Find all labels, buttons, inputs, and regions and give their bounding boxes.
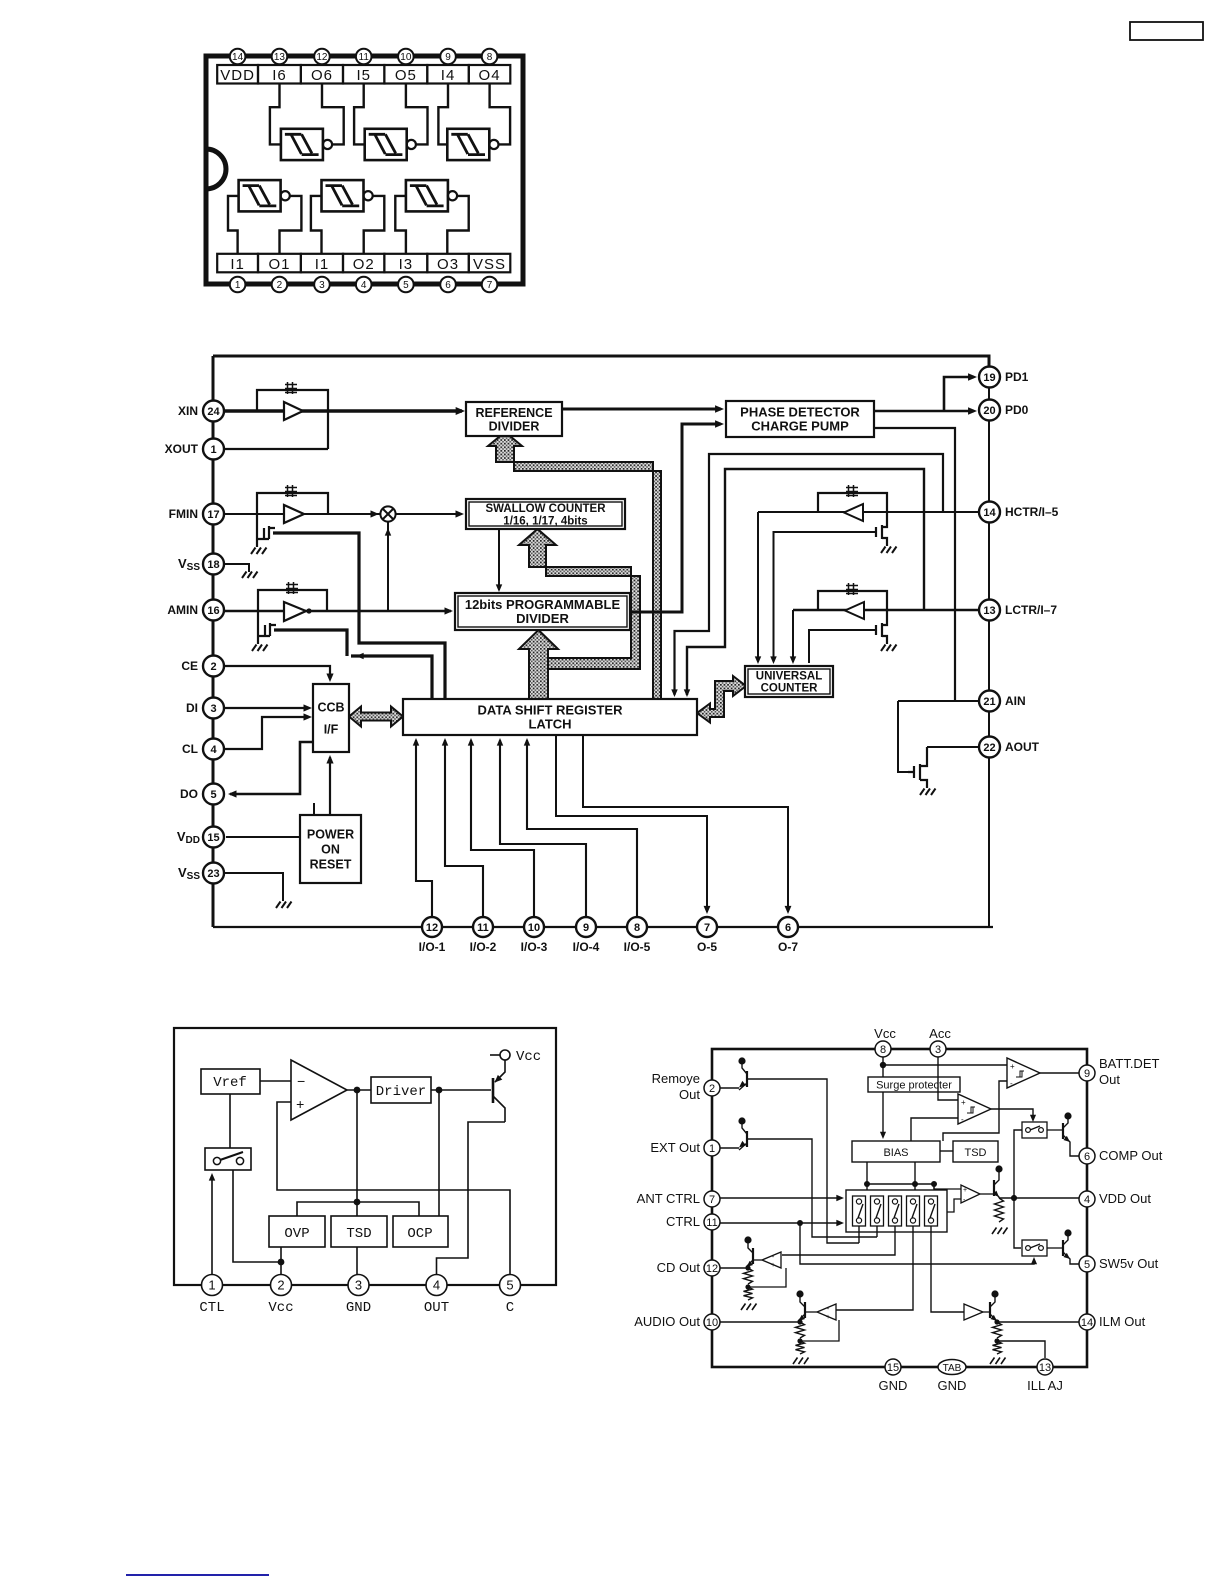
wire: FM MOSFET gate control (thick, to data shift register) (273, 533, 445, 699)
CD driver input buffer triangle (762, 1252, 781, 1268)
wire: VSS pin 18 to ground (224, 564, 249, 572)
svg-text:ILL AJ: ILL AJ (1027, 1378, 1063, 1393)
TSD block (953, 1141, 998, 1162)
pin 23 (VSS) (203, 863, 224, 884)
svg-text:9: 9 (1084, 1068, 1090, 1080)
wire: CE to CCB interface (224, 666, 330, 678)
wire: I/O-2 pin to data shift register (445, 740, 483, 917)
pin 17 (FMIN) (203, 504, 224, 525)
empty reference box top-right (1130, 22, 1203, 40)
wire: DO output from CCB interface (230, 742, 312, 794)
wire: CTRL branch to SW5v switch (800, 1223, 1034, 1264)
svg-text:DIVIDER: DIVIDER (516, 611, 569, 626)
pin 11 (I/O-2) (473, 917, 493, 937)
svg-text:I6: I6 (272, 67, 287, 84)
svg-text:CTRL: CTRL (666, 1214, 700, 1229)
svg-text:3: 3 (355, 1278, 362, 1293)
ILM driver buffer triangle (964, 1304, 983, 1320)
svg-text:Vcc: Vcc (874, 1026, 896, 1041)
svg-text:1: 1 (210, 444, 216, 456)
wire: comparator 1 inverting input from BIAS (943, 1081, 1007, 1141)
svg-text:10: 10 (706, 1317, 718, 1329)
inverter gate U3 (top row) with input/output wires (447, 129, 489, 160)
svg-text:AUDIO Out: AUDIO Out (634, 1314, 700, 1329)
wire: switch 5 to ILM driver (931, 1226, 964, 1312)
error amplifier op-amp (291, 1060, 347, 1120)
svg-text:1: 1 (709, 1143, 715, 1155)
svg-text:CTL: CTL (199, 1300, 224, 1316)
power switch IC outline (712, 1049, 1087, 1367)
svg-text:OVP: OVP (284, 1226, 309, 1242)
svg-text:I5: I5 (356, 67, 371, 84)
svg-text:O4: O4 (479, 67, 501, 84)
svg-text:8: 8 (880, 1044, 886, 1056)
feedback resistor loop around HCTR inverter (818, 493, 887, 523)
svg-text:I1: I1 (230, 256, 245, 273)
pin 2 (Remoye Out) left (704, 1080, 720, 1096)
SW5v switch (1022, 1240, 1047, 1256)
svg-text:O6: O6 (311, 67, 333, 84)
svg-text:1: 1 (235, 280, 241, 291)
svg-text:LCTR/I–7: LCTR/I–7 (1005, 603, 1057, 617)
wire: CTRL pin 11 into switch bank (720, 1222, 841, 1224)
svg-text:23: 23 (207, 868, 219, 880)
top pin number circles 14-8 (230, 49, 246, 65)
wire: DI to CCB interface (224, 707, 309, 709)
VDD regulator transistor (995, 1165, 1002, 1172)
OCP block (393, 1216, 448, 1247)
inverter gate U4 (bottom row) with input/output wires (239, 180, 281, 211)
svg-text:DO: DO (180, 787, 198, 801)
pin 15 (VDD) (203, 827, 224, 848)
pin 8 (Vcc) top (875, 1041, 891, 1057)
svg-text:TAB: TAB (943, 1363, 962, 1374)
AOUT MOSFET (908, 747, 927, 788)
svg-text:VDD: VDD (177, 829, 200, 846)
wire: comparator 2 inverting input from BIAS (911, 1118, 958, 1141)
bus: swallow counter data bus (stippled arrow) (519, 529, 640, 669)
pin 19 (PD1) (979, 367, 1000, 388)
COMP Out switch (1022, 1122, 1047, 1138)
wire: AOUT line (927, 746, 979, 748)
svg-text:CD Out: CD Out (657, 1260, 701, 1275)
svg-text:XIN: XIN (178, 404, 198, 418)
wire: feedback from C pin to non-inverting input (277, 1102, 510, 1275)
svg-text:+: + (296, 1098, 304, 1114)
pin 24 (XIN) (203, 401, 224, 422)
svg-text:8: 8 (487, 52, 493, 63)
svg-text:Acc: Acc (929, 1026, 951, 1041)
wire: SW5v switch to transistor base (1047, 1247, 1063, 1249)
HCTR open-drain MOSFET (876, 523, 887, 546)
pin 1 (CTL) (202, 1275, 223, 1296)
pin 5 (DO) (203, 784, 224, 805)
wire: op-amp output node down to TSD (356, 1090, 358, 1216)
svg-text:REFERENCE: REFERENCE (475, 406, 552, 420)
wire: ILM node to ILL AJ pin 13 (997, 1341, 1045, 1358)
svg-text:12: 12 (426, 922, 438, 934)
wire: BIAS to TSD (940, 1150, 953, 1152)
wire: I/O-1 pin to data shift register (416, 740, 432, 917)
wire: programmable divider output to phase detector (thick) (630, 424, 721, 612)
wire: XIN input line to reference divider (thick) (224, 409, 462, 412)
svg-text:I1: I1 (315, 256, 330, 273)
svg-text:GND: GND (938, 1378, 967, 1393)
AM input amplifier (284, 602, 306, 621)
svg-text:AIN: AIN (1005, 694, 1026, 708)
wire: I/O-3 pin to data shift register (471, 740, 534, 917)
svg-text:6: 6 (445, 280, 451, 291)
wire: buffer to AUDIO transistor base (805, 1311, 817, 1313)
AUDIO emitter resistor to ground (796, 1322, 805, 1338)
wire: op-amp - input from switch bank (947, 1199, 961, 1212)
pin 14 (ILM Out) right (1079, 1314, 1095, 1330)
svg-text:20: 20 (983, 405, 995, 417)
svg-text:POWER: POWER (307, 828, 354, 842)
HCTR inverter (844, 504, 863, 521)
wire: HCTR line down into universal counter (757, 512, 759, 662)
pin 4 (VDD Out) right (1079, 1191, 1095, 1207)
svg-text:VDD: VDD (220, 67, 255, 84)
svg-text:Out: Out (1099, 1072, 1120, 1087)
wire: VDD emitter to pin 4 (999, 1197, 1079, 1199)
pin 3 (DI) (203, 698, 224, 719)
wire: VDD pin 15 to power-on-reset (226, 803, 314, 837)
svg-text:O-7: O-7 (778, 940, 798, 954)
svg-text:BATT.DET: BATT.DET (1099, 1056, 1159, 1071)
svg-text:Remoye: Remoye (652, 1071, 700, 1086)
LCTR inverter (845, 602, 864, 619)
svg-text:OCP: OCP (407, 1226, 432, 1242)
wire: XOUT to feedback loop (224, 448, 328, 450)
wire: BIAS outputs to switch bank rail (867, 1162, 934, 1190)
svg-text:VSS: VSS (178, 556, 200, 573)
svg-text:Driver: Driver (376, 1084, 426, 1100)
svg-text:19: 19 (983, 372, 995, 384)
wire: AUDIO feedback to buffer (800, 1320, 839, 1341)
block: SWALLOW COUNTER (466, 499, 625, 529)
feedback resistor loop around XIN amp (257, 390, 328, 449)
wire: LCTR MOSFET gate control to universal counter (809, 630, 876, 663)
bus: data shift register to universal counter (stippled double arrow) (697, 676, 746, 723)
IC package outline (hex Schmitt inverter) (206, 56, 523, 284)
svg-text:21: 21 (983, 696, 995, 708)
svg-text:11: 11 (706, 1217, 717, 1229)
svg-text:+: + (961, 1098, 966, 1107)
svg-text:ANT CTRL: ANT CTRL (637, 1191, 700, 1206)
pin 14 (HCTR/I-5) (979, 502, 1000, 523)
control switch 5 in switch bank (925, 1196, 938, 1226)
svg-text:LATCH: LATCH (528, 717, 571, 732)
wire: AIN line (898, 700, 979, 702)
svg-text:PD1: PD1 (1005, 370, 1029, 384)
svg-text:I/O-2: I/O-2 (470, 940, 497, 954)
svg-text:14: 14 (983, 507, 996, 519)
block: REFERENCE DIVIDER (466, 402, 562, 436)
CTL switch box (205, 1148, 251, 1170)
wire: CTL pin 1 control into switch (211, 1176, 213, 1275)
pin 9 (I/O-4) (576, 917, 596, 937)
svg-text:O3: O3 (437, 256, 459, 273)
Surge protecter block (868, 1077, 960, 1092)
control switch 2 in switch bank (871, 1196, 884, 1226)
pin 5 (C) (500, 1275, 521, 1296)
svg-text:-: - (1010, 1079, 1013, 1088)
svg-text:24: 24 (207, 406, 220, 418)
wire: Acc pin 3 to second comparator (938, 1057, 958, 1100)
wire: reference divider to phase detector (thick) (562, 408, 721, 411)
inverter gate U1 (top row) with input/output wires (281, 129, 323, 160)
wire: op-amp to VDD transistor base (980, 1193, 994, 1195)
svg-text:7: 7 (704, 922, 710, 934)
svg-text:13: 13 (274, 52, 286, 63)
svg-text:6: 6 (785, 922, 791, 934)
SW5v output transistor (1064, 1229, 1071, 1236)
control switch 1 in switch bank (853, 1196, 866, 1226)
wire: collector to OUT pin 4 (437, 1122, 506, 1275)
wire: comparator output to pin 9 (1040, 1072, 1079, 1074)
PLL diagram: top border wire (213, 356, 989, 368)
svg-text:4: 4 (361, 280, 367, 291)
wire: pin 12 to CD driver emitter node (720, 1267, 748, 1269)
svg-text:DI: DI (186, 701, 198, 715)
svg-text:9: 9 (445, 52, 451, 63)
svg-text:COMP Out: COMP Out (1099, 1148, 1163, 1163)
pin 21 (AIN) (979, 691, 1000, 712)
wire: branch up to PD1 pin (thick) (944, 377, 974, 411)
svg-text:CE: CE (181, 659, 198, 673)
svg-text:CCB: CCB (317, 701, 344, 715)
wire: comparator 2 output to COMP switch (991, 1109, 1033, 1119)
pin 13 (ILL AJ) bottom (1037, 1359, 1053, 1375)
svg-text:Vcc: Vcc (268, 1300, 293, 1316)
svg-text:OUT: OUT (424, 1300, 449, 1316)
svg-text:ILM Out: ILM Out (1099, 1314, 1146, 1329)
svg-text:C: C (506, 1300, 514, 1316)
svg-text:BIAS: BIAS (883, 1147, 908, 1159)
pin-1 index notch (206, 149, 226, 189)
wire: switch 3 to CD driver (782, 1226, 895, 1255)
wire: I/O-4 pin to data shift register (500, 740, 586, 917)
svg-text:TSD: TSD (346, 1226, 371, 1242)
svg-text:13: 13 (1039, 1362, 1051, 1374)
pin 9 (BATT.DET Out) right (1079, 1065, 1095, 1081)
inverter gate U6 (bottom row) with input/output wires (406, 180, 448, 211)
ILM emitter resistor to ground (993, 1322, 1002, 1338)
svg-text:PHASE DETECTOR: PHASE DETECTOR (740, 405, 860, 420)
inverter gate U5 (bottom row) with input/output wires (322, 180, 364, 211)
svg-text:14: 14 (232, 52, 244, 63)
svg-text:5: 5 (403, 280, 409, 291)
wire: ILM emitter to pin 14 (997, 1321, 1079, 1323)
pin 15 (GND) bottom (885, 1359, 901, 1375)
pin 12 (CD Out) left (704, 1260, 720, 1276)
feedback resistor loop around LCTR inverter (818, 591, 887, 621)
svg-text:I/O-5: I/O-5 (624, 940, 651, 954)
svg-text:2: 2 (210, 661, 216, 673)
pin 1 (XOUT) (203, 439, 224, 460)
Vcc terminal (490, 1054, 500, 1056)
wire: CL to CCB interface (224, 717, 309, 749)
EXT output transistor (738, 1117, 745, 1124)
pin 4 (OUT) (426, 1275, 447, 1296)
second comparator (with hysteresis) (958, 1094, 991, 1124)
svg-text:+: + (963, 1187, 967, 1194)
svg-text:8: 8 (634, 922, 640, 934)
svg-text:3: 3 (319, 280, 325, 291)
Remote output transistor (738, 1057, 745, 1064)
wire: AM MOSFET gate control to data shift register (thick) (274, 630, 432, 699)
svg-text:5: 5 (1084, 1259, 1090, 1271)
wire: ANT CTRL pin 7 into switch bank (720, 1197, 841, 1199)
svg-text:Surge protecter: Surge protecter (876, 1080, 952, 1092)
AM input clamp MOSFET (258, 611, 276, 644)
ILM output transistor (991, 1290, 998, 1297)
svg-text:I3: I3 (399, 256, 414, 273)
pin 13 (LCTR/I-7) (979, 600, 1000, 621)
wire: I-7 port feedback (LCTR to data shift register) (687, 469, 924, 695)
svg-text:RESET: RESET (310, 858, 352, 872)
svg-text:−: − (297, 1075, 305, 1091)
pin 2 (Vcc) (271, 1275, 292, 1296)
pin 7 (ANT CTRL) left (704, 1191, 720, 1207)
svg-text:17: 17 (207, 509, 219, 521)
pin 22 (AOUT) (979, 737, 1000, 758)
mixer (FM/AM) (380, 506, 395, 521)
svg-text:+: + (771, 1262, 775, 1269)
wire: HCTR MOSFET gate control to universal counter (774, 532, 877, 662)
svg-text:O-5: O-5 (697, 940, 717, 954)
bus: reference divider data bus (stippled arrow) (488, 432, 661, 699)
wire: driver node down to OCP (438, 1090, 440, 1216)
svg-text:SWALLOW COUNTER: SWALLOW COUNTER (485, 503, 606, 515)
svg-text:12: 12 (316, 52, 328, 63)
block: UNIVERSAL COUNTER (745, 666, 833, 697)
pin 1 (EXT Out) left (704, 1140, 720, 1156)
svg-text:UNIVERSAL: UNIVERSAL (756, 671, 822, 683)
wire: HCTR/I-5 line (758, 511, 979, 513)
wire: op-amp + input from bias rail (934, 1187, 961, 1189)
OVP block (269, 1216, 325, 1247)
regulator IC outline (174, 1028, 556, 1285)
pin 2 (CE) (203, 656, 224, 677)
svg-text:Out: Out (679, 1087, 700, 1102)
blue horizontal rule bottom-left (126, 1574, 269, 1576)
wire: data shift register to O-7 pin (583, 735, 788, 912)
wire: I/O-5 pin to data shift register (527, 740, 637, 917)
block: POWER ON RESET (300, 815, 361, 883)
svg-text:CL: CL (182, 742, 198, 756)
svg-text:5: 5 (506, 1278, 513, 1293)
svg-text:2: 2 (709, 1083, 715, 1095)
svg-text:O1: O1 (268, 256, 290, 273)
PLL diagram: right pin rail wire (988, 368, 990, 927)
svg-text:15: 15 (207, 832, 219, 844)
FM input clamp MOSFET (257, 514, 275, 547)
TAB (GND) bottom (938, 1360, 966, 1375)
wire: data shift register to O-5 pin (556, 735, 707, 912)
inverter gate U2 (top row) with input/output wires (365, 129, 407, 160)
AUDIO driver input buffer triangle (817, 1304, 836, 1320)
block: CCB I/F (313, 684, 349, 752)
FM input amplifier (284, 505, 304, 523)
svg-text:7: 7 (709, 1194, 715, 1206)
wire: phase detector right to AIN riser (874, 428, 955, 701)
svg-text:+: + (826, 1314, 830, 1321)
svg-text:I/O-1: I/O-1 (419, 940, 446, 954)
svg-text:PD0: PD0 (1005, 403, 1029, 417)
svg-text:I/O-4: I/O-4 (573, 940, 600, 954)
wire: AMIN line to programmable divider (thick) (224, 610, 451, 613)
svg-text:13: 13 (983, 605, 995, 617)
svg-text:4: 4 (433, 1278, 440, 1293)
wire: LCTR line down into universal counter (792, 610, 794, 662)
svg-text:GND: GND (879, 1378, 908, 1393)
pin 3 (Acc) top (930, 1041, 946, 1057)
wire: buffer to ILM transistor base (983, 1311, 990, 1313)
svg-text:I/F: I/F (324, 723, 339, 737)
svg-text:15: 15 (887, 1362, 899, 1374)
svg-text:DATA SHIFT REGISTER: DATA SHIFT REGISTER (478, 703, 624, 718)
pin 18 (VSS) (203, 554, 224, 575)
svg-text:COUNTER: COUNTER (761, 683, 819, 695)
svg-text:SW5v Out: SW5v Out (1099, 1256, 1159, 1271)
PLL diagram: bottom rail wire (213, 926, 993, 928)
svg-text:DIVIDER: DIVIDER (489, 419, 540, 433)
svg-text:O5: O5 (395, 67, 417, 84)
wire: pin 1 to EXT transistor (720, 1147, 739, 1149)
block: DATA SHIFT REGISTER LATCH (403, 699, 697, 735)
svg-text:18: 18 (207, 559, 219, 571)
wire: op-amp output to Driver (347, 1089, 371, 1091)
COMP output transistor (1064, 1112, 1071, 1119)
wire: Driver to pass transistor base (431, 1089, 491, 1091)
AUDIO output driver transistor (796, 1290, 803, 1297)
switch bank outer box (846, 1190, 947, 1232)
pin 11 (CTRL) left (704, 1214, 720, 1230)
svg-text:FMIN: FMIN (169, 507, 198, 521)
svg-text:VDD Out: VDD Out (1099, 1191, 1151, 1206)
TSD block (331, 1216, 387, 1247)
wire: TSD to GND pin 3 (356, 1247, 358, 1275)
PLL diagram: left rail wire (212, 356, 215, 927)
pass transistor (PNP) (492, 1078, 495, 1103)
wire: Vref to switch (229, 1094, 231, 1148)
protection bracket wire (297, 1202, 419, 1216)
crystal oscillator amplifier (XIN) (284, 402, 303, 420)
CD output driver transistor (744, 1236, 751, 1243)
BIAS block (852, 1141, 940, 1162)
svg-text:3: 3 (935, 1044, 941, 1056)
feedback resistor loop around AM amp (258, 590, 327, 611)
wire: EXT transistor base from switch 2 (747, 1139, 877, 1237)
svg-text:VSS: VSS (178, 865, 200, 882)
VDD sense resistor to ground (995, 1198, 1004, 1222)
wire: LCTR/I-7 line (793, 609, 979, 612)
svg-text:16: 16 (207, 605, 219, 617)
svg-text:-: - (961, 1115, 964, 1124)
pin 10 (I/O-3) (524, 917, 544, 937)
CD emitter resistor to ground (744, 1268, 753, 1284)
svg-text:Vref: Vref (213, 1075, 247, 1091)
svg-text:I/O-3: I/O-3 (521, 940, 548, 954)
VDD regulator op-amp (961, 1185, 980, 1203)
pin 16 (AMIN) (203, 600, 224, 621)
pin 6 (O-7) (778, 917, 798, 937)
svg-text:7: 7 (487, 280, 493, 291)
svg-text:EXT Out: EXT Out (650, 1140, 700, 1155)
wire: AM signal up into mixer (387, 522, 389, 611)
